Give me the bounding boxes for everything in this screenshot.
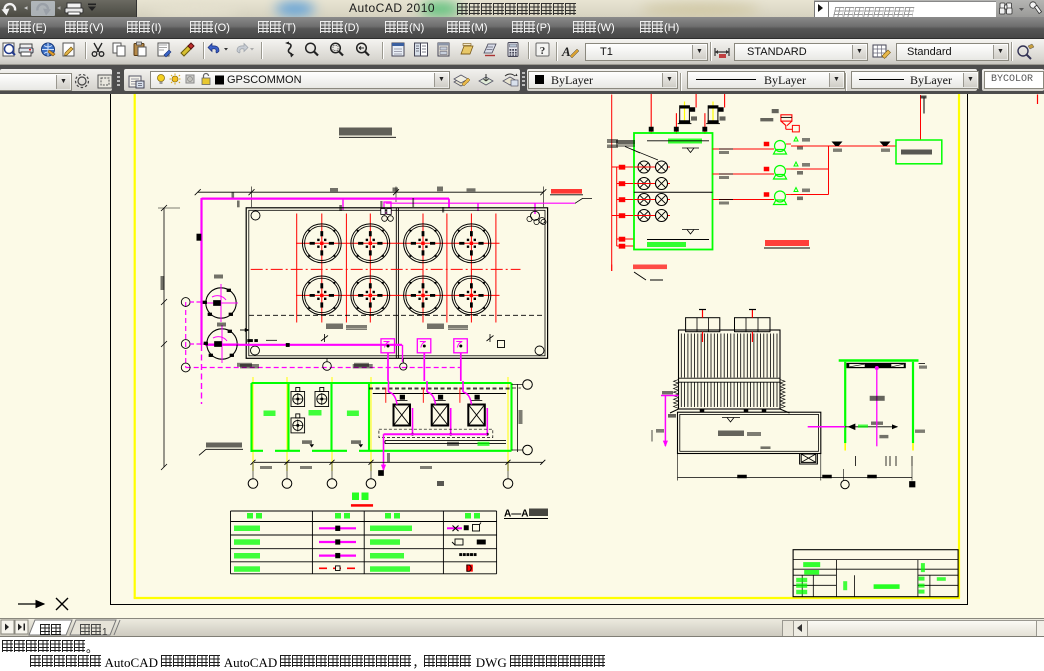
svg-text:A—A: A—A — [504, 509, 528, 520]
svg-text:A: A — [561, 44, 571, 59]
svg-text:?: ? — [540, 45, 546, 57]
